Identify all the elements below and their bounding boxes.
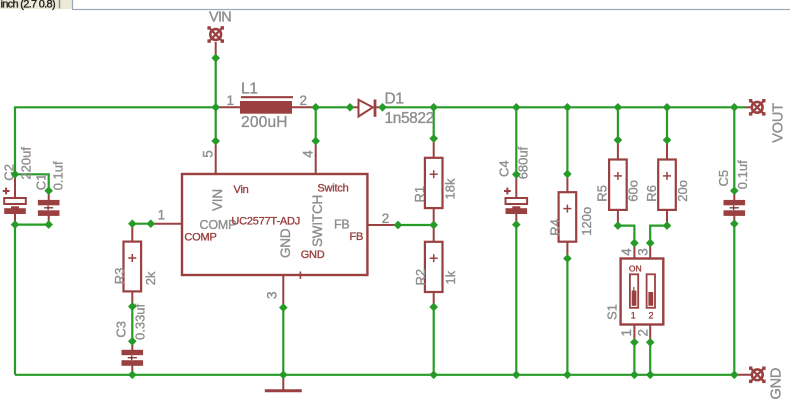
junction R5 top: [614, 136, 623, 145]
svg-text:1: 1: [631, 311, 636, 321]
svg-text:220uf: 220uf: [19, 147, 34, 180]
svg-text:VIN: VIN: [209, 10, 231, 26]
U1 red label FB: [350, 231, 364, 243]
svg-text:UC2577T-ADJ: UC2577T-ADJ: [231, 216, 300, 228]
svg-text:C5: C5: [716, 170, 731, 187]
wire top rail to R6: [666, 107, 668, 140]
svg-text:ON: ON: [629, 264, 642, 274]
R4 value 120o: [579, 207, 594, 236]
U1 pin name SWITCH: [310, 195, 325, 247]
junction VIN stub: [211, 54, 220, 63]
junction C3 on ground rail: [128, 370, 137, 379]
VOUT label: [770, 103, 786, 143]
svg-text:COMP: COMP: [184, 232, 216, 244]
junction pin 4 top: [311, 137, 320, 146]
S1 inner label 1: [631, 311, 636, 321]
junction C4 on ground rail: [512, 370, 521, 379]
S1 switch element 1: [630, 274, 638, 308]
svg-text:4: 4: [301, 150, 316, 158]
capacitor C2: [3, 174, 26, 224]
resistor R6: [658, 140, 676, 226]
L1 pin 1 number: [227, 93, 234, 108]
VIN label: [209, 10, 231, 26]
junction R4 on top rail: [563, 103, 572, 112]
L1 value 200uH: [241, 114, 288, 131]
S1 switch element 2: [647, 274, 655, 308]
R2 value 1k: [443, 270, 458, 284]
R1 value 18k: [443, 178, 458, 199]
svg-text:1: 1: [158, 208, 165, 223]
U1 red label COMP: [184, 232, 216, 244]
R3 value 2k: [143, 271, 158, 285]
junction S1 pin 2 on ground rail: [646, 370, 655, 379]
capacitor C5: [724, 191, 746, 224]
junction R5 bottom: [614, 221, 623, 230]
wire VOUT top rail after D1: [383, 106, 747, 108]
capacitor C3: [122, 341, 144, 375]
wire top rail from left corner to VIN junction: [15, 107, 216, 174]
C4 value 680uf: [516, 146, 531, 179]
wire C4 bottom to ground rail: [515, 225, 517, 375]
wire top rail between L1 and D1: [316, 106, 350, 108]
terminal GND symbol: [734, 367, 765, 384]
U1 pin name COMP: [200, 218, 237, 232]
svg-text:0.33uf: 0.33uf: [133, 303, 148, 340]
svg-text:1n5822: 1n5822: [385, 110, 434, 127]
junction R6 on top rail: [663, 103, 672, 112]
svg-text:2: 2: [382, 211, 389, 226]
junction C5 on ground rail: [730, 370, 739, 379]
junction VIN on top rail: [211, 103, 220, 112]
junction R3 top: [128, 219, 137, 228]
R3 name label: [112, 268, 127, 285]
wire top rail to R4: [566, 107, 568, 174]
resistor R1: [425, 139, 443, 226]
R4 name label: [548, 219, 563, 236]
resistor R3: [124, 224, 142, 307]
C1 value 0.1uf: [51, 161, 66, 190]
svg-text:120o: 120o: [579, 207, 594, 236]
R1 name label: [412, 186, 427, 203]
svg-text:inch (2.7 0.8): inch (2.7 0.8): [1, 0, 55, 11]
wire R5 bottom to S1 pin 4: [618, 226, 635, 243]
svg-text:D1: D1: [385, 91, 404, 108]
svg-text:FB: FB: [334, 217, 350, 231]
wire R6 bottom to S1 pin 3: [650, 226, 667, 243]
junction R5 on top rail: [614, 103, 623, 112]
svg-text:3: 3: [265, 292, 280, 299]
junction ground rail center: [279, 370, 288, 379]
wire pin 3 to ground rail: [282, 308, 284, 375]
junction R4 on ground rail: [563, 370, 572, 379]
toolbar separator: [59, 0, 61, 9]
R5 value 60o: [626, 180, 641, 202]
svg-text:2: 2: [649, 311, 654, 321]
junction S1 pin 1 on ground rail: [630, 370, 639, 379]
svg-text:1: 1: [619, 329, 634, 336]
junction R6 top: [663, 136, 672, 145]
U1 red label Vin: [234, 184, 249, 196]
U1 pin 1 number: [158, 208, 165, 223]
svg-text:R3: R3: [112, 268, 127, 285]
junction pin 5 top: [211, 137, 220, 146]
svg-text:L1: L1: [241, 81, 258, 98]
svg-text:0.1uf: 0.1uf: [51, 161, 66, 190]
C5 value 0.1uf: [735, 160, 750, 189]
wire FB from pin 2 to R1-R2 node: [398, 224, 434, 226]
svg-text:C4: C4: [497, 160, 512, 177]
diode D1: [350, 100, 383, 117]
junction R1-R2-FB node: [429, 221, 438, 230]
svg-text:2k: 2k: [143, 271, 158, 285]
svg-text:2: 2: [300, 93, 307, 108]
wire R1 feed from top rail: [433, 107, 435, 138]
junction R6 bottom: [663, 221, 672, 230]
S1 pin 1 lead: [633, 325, 635, 343]
junction D1 cathode: [378, 103, 387, 112]
op-amp regulator U1 UC2577T-ADJ body: [182, 174, 367, 279]
C2 value 220uf: [19, 147, 34, 180]
U1 pin 2 lead: [367, 224, 398, 226]
C1 name label: [34, 174, 49, 191]
U1 red label GND: [301, 249, 325, 261]
svg-text:GND: GND: [769, 368, 785, 400]
R6 name label: [644, 185, 659, 202]
junction C5 top: [730, 186, 739, 195]
capacitor C1: [38, 191, 60, 225]
GND terminal label: [769, 368, 785, 400]
svg-text:FB: FB: [350, 231, 364, 243]
U1 pin 4 number: [301, 150, 316, 158]
svg-text:VIN: VIN: [210, 189, 225, 211]
svg-text:0.1uf: 0.1uf: [735, 160, 750, 189]
svg-text:200uH: 200uH: [241, 114, 288, 131]
svg-text:R1: R1: [412, 186, 427, 203]
toolbar background strip: [0, 0, 72, 9]
wire VIN drop through top rail to pin 5: [215, 58, 217, 141]
junction R1 on top rail: [429, 103, 438, 112]
wire C2 top to C1 top jumper: [15, 174, 49, 190]
U1 pin 1 lead: [151, 223, 182, 225]
C4 name label: [497, 160, 512, 177]
L1 name label: [241, 81, 258, 98]
svg-text:R2: R2: [413, 269, 428, 286]
S1 pin 4 lead: [633, 243, 635, 259]
svg-text:SWITCH: SWITCH: [310, 195, 325, 247]
U1 pin name GND: [278, 228, 293, 258]
junction C2 bottom: [11, 220, 20, 229]
junction L1 right on top rail: [311, 103, 320, 112]
toolbar command input box: [73, 0, 790, 10]
svg-text:4: 4: [619, 248, 634, 256]
terminal VOUT symbol: [746, 99, 766, 116]
junction C1 bottom: [44, 220, 53, 229]
junction S1 pin 3 end: [646, 239, 655, 248]
junction R1 top: [429, 134, 438, 143]
wire top rail to R5: [617, 107, 619, 140]
svg-text:GND: GND: [278, 228, 293, 258]
wire pin 4 drop from top rail: [315, 107, 317, 141]
wire pin 1 to R3 top: [132, 223, 151, 225]
S1 pin 2 number: [636, 329, 651, 336]
inductor L1: [216, 97, 316, 114]
svg-text:5: 5: [201, 150, 216, 157]
S1 name label: [605, 304, 620, 320]
U1 pin 3 number: [265, 292, 280, 299]
U1 pin 5 lead: [215, 141, 217, 174]
svg-text:R4: R4: [548, 219, 563, 236]
junction C4 on top rail: [512, 103, 521, 112]
wire ground rail: [15, 374, 734, 376]
resistor R4: [559, 174, 577, 259]
U1 pin 4 lead: [315, 141, 317, 174]
svg-text:3: 3: [636, 248, 651, 255]
capacitor C4: [504, 174, 527, 224]
supply terminal VIN symbol: [207, 26, 224, 58]
U1 pin 5 number: [201, 150, 216, 157]
C5 name label: [716, 170, 731, 187]
S1 pin 1 number: [619, 329, 634, 336]
S1 pin 3 number: [636, 248, 651, 255]
svg-text:20o: 20o: [675, 180, 690, 202]
R2 name label: [413, 269, 428, 286]
junction R2 bottom: [429, 303, 438, 312]
junction pin 3 end: [279, 303, 288, 312]
svg-text:VOUT: VOUT: [770, 103, 786, 143]
junction D1 anode: [346, 103, 355, 112]
svg-text:Vin: Vin: [234, 184, 249, 196]
junction FB pin end: [394, 221, 403, 230]
U1 pin 3 lead: [282, 275, 284, 308]
S1 inner label 2: [649, 311, 654, 321]
resistor R5: [609, 140, 627, 226]
R6 value 20o: [675, 180, 690, 202]
U1 red label Switch: [317, 182, 348, 194]
resistor R2: [425, 225, 443, 307]
wire top rail to C5: [733, 107, 735, 190]
junction C3 top: [128, 337, 137, 346]
dip switch S1 body: [621, 259, 664, 325]
wire left rail down to ground rail: [14, 225, 16, 375]
D1 name label: [385, 91, 404, 108]
wire R4 bottom to ground rail: [566, 259, 568, 375]
wire S1 pin 2 to ground rail: [649, 342, 651, 375]
junction R4 top: [563, 170, 572, 179]
U1 pin name VIN: [210, 189, 225, 211]
S1 pin 2 lead: [649, 325, 651, 343]
svg-text:R5: R5: [595, 185, 610, 202]
junction S1 pin 2 end: [646, 338, 655, 347]
C3 name label: [114, 321, 129, 338]
svg-text:Switch: Switch: [317, 182, 348, 194]
toolbar coordinate text inch (2.7 0.8): [1, 0, 55, 11]
svg-text:1k: 1k: [443, 270, 458, 284]
junction C1 top: [44, 186, 53, 195]
svg-text:2: 2: [636, 329, 651, 336]
wire S1 pin 1 to ground rail: [633, 342, 635, 375]
junction R4 bottom: [563, 254, 572, 263]
R5 name label: [595, 185, 610, 202]
wire top rail to C4: [515, 107, 517, 174]
junction C4 top: [512, 170, 521, 179]
junction S1 pin 1 end: [630, 338, 639, 347]
wire C1 bottom to C2 bottom jumper: [15, 224, 49, 226]
svg-text:S1: S1: [605, 304, 620, 320]
U1 pin 2 number: [382, 211, 389, 226]
junction C2 top node: [11, 170, 20, 179]
junction C5 on top rail: [730, 103, 739, 112]
S1 pin 4 number: [619, 248, 634, 256]
svg-text:1: 1: [227, 93, 234, 108]
junction C5 bottom: [730, 219, 739, 228]
svg-text:18k: 18k: [443, 178, 458, 199]
junction pin 1 end: [146, 219, 155, 228]
wire R3 bottom to C3 top: [131, 307, 133, 342]
U1 value UC2577T-ADJ: [231, 216, 300, 228]
wire R2 bottom to ground rail: [433, 307, 435, 375]
junction C4 bottom: [512, 220, 521, 229]
D1 value 1n5822: [385, 110, 434, 127]
svg-text:C1: C1: [34, 174, 49, 191]
C2 name label: [1, 164, 16, 181]
ground symbol: [265, 375, 302, 391]
svg-text:R6: R6: [644, 185, 659, 202]
svg-text:GND: GND: [301, 249, 325, 261]
S1 pin 3 lead: [649, 243, 651, 259]
junction R3 bottom: [128, 302, 137, 311]
junction S1 pin 4 end: [630, 239, 639, 248]
svg-text:C3: C3: [114, 321, 129, 338]
C3 value 0.33uf: [133, 303, 148, 340]
wire C5 bottom to ground rail: [733, 224, 735, 375]
svg-text:60o: 60o: [626, 180, 641, 202]
junction R2 on ground rail: [429, 370, 438, 379]
U1 pin name FB: [334, 217, 350, 231]
L1 pin 2 number: [300, 93, 307, 108]
